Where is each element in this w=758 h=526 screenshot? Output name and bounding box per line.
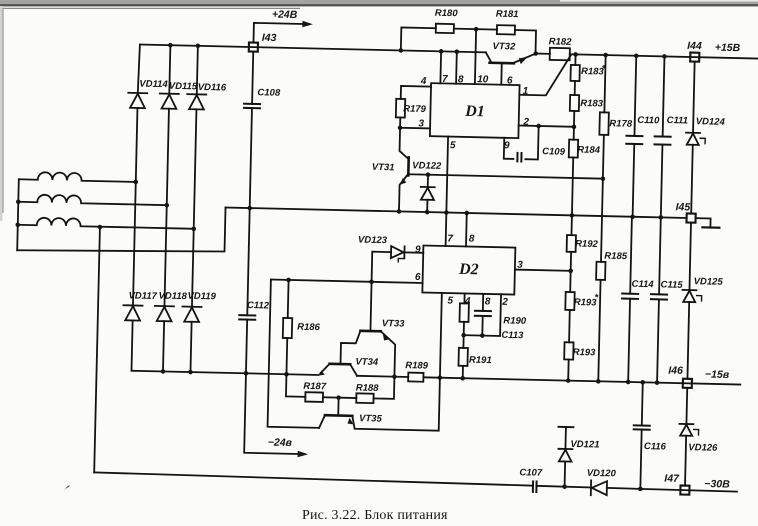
wire R183a to R183	[574, 81, 576, 95]
node -15 bus col3	[188, 370, 193, 375]
svg-text:VT31: VT31	[372, 162, 395, 174]
transistor VT33	[360, 329, 380, 332]
diode VD119	[182, 306, 201, 308]
wire D1 pin5 to middle rail	[446, 137, 448, 213]
wire middle rail to C112	[247, 208, 249, 315]
resistor R192	[567, 235, 576, 252]
wire D2 pin7 from middle rail	[445, 213, 448, 246]
wire R186 to -15 bus	[285, 338, 288, 374]
wire C113 bottom	[481, 316, 483, 336]
svg-text:I47: I47	[664, 473, 680, 485]
node rail A col3	[196, 43, 201, 48]
svg-text:R180: R180	[435, 8, 459, 20]
wire VD123 anode down to pin6 wire	[372, 252, 391, 283]
transistor VT31	[407, 157, 410, 175]
wire -15V bus left section (rectifier side, ends at VT34 emitter)	[131, 371, 318, 375]
wire VD125 to I46	[687, 302, 689, 379]
node middle rail pin5/pin7	[444, 210, 449, 215]
svg-text:R188: R188	[356, 383, 380, 395]
svg-text:C107: C107	[519, 467, 543, 479]
wire R188 right riser to -15 rail	[374, 376, 395, 399]
wire R187 left riser	[286, 374, 306, 397]
node -15 bus col2	[161, 369, 166, 374]
diode VD123 (zener)	[391, 246, 404, 258]
svg-text:VD124: VD124	[696, 116, 726, 128]
capacitor C110	[626, 135, 642, 137]
wire D2 pin2 down and across	[464, 293, 501, 336]
wire column 2	[169, 45, 170, 93]
wire C114 column	[630, 217, 632, 294]
transistor VT34	[330, 363, 351, 366]
svg-text:5: 5	[450, 140, 456, 151]
wire R191 to -15 rail	[462, 366, 464, 378]
wire C111 bottom	[661, 145, 663, 218]
ground symbol at I45	[695, 218, 710, 226]
node middle rail pin8 D2	[464, 211, 469, 216]
svg-text:10: 10	[477, 74, 489, 85]
wire D1 pin9 to C109 loop	[504, 138, 514, 159]
node L2 left junction	[16, 199, 21, 204]
svg-text:VD126: VD126	[688, 442, 718, 454]
op-amp U D2 box	[422, 246, 515, 295]
wire R178 top	[604, 55, 605, 112]
diode VD120 (in -30 rail)	[590, 480, 592, 495]
resistor R180	[436, 24, 454, 33]
svg-text:+24В: +24В	[272, 9, 298, 22]
wire C115 column	[659, 217, 661, 294]
wire R178 to VT31 base line and down to R185	[601, 135, 604, 262]
svg-text:2: 2	[522, 117, 529, 128]
wire R183 column top	[574, 54, 576, 65]
resistor R184	[569, 140, 578, 158]
svg-text:VD120: VD120	[587, 468, 617, 480]
wire D2 pin4 to R190	[463, 293, 465, 303]
svg-text:C113: C113	[501, 330, 524, 342]
capacitor C109	[516, 153, 518, 161]
node middle rail C110	[630, 214, 635, 219]
svg-text:VD122: VD122	[412, 160, 442, 172]
node rail A R183 column	[573, 52, 578, 57]
node -15 bus R186/R187	[284, 372, 289, 377]
node rail A R178 column	[603, 53, 608, 58]
node -15 bus C-column	[244, 371, 249, 376]
svg-text:D1: D1	[464, 103, 485, 120]
wire C108 to middle rail	[250, 108, 252, 208]
node VD122 top	[426, 172, 431, 177]
diode VD116	[187, 93, 206, 95]
wire D2 pin8b to C113	[482, 294, 484, 311]
svg-text:R186: R186	[297, 322, 321, 334]
svg-text:I43: I43	[262, 32, 277, 44]
resistor R188	[356, 393, 373, 403]
svg-text:1: 1	[523, 86, 529, 97]
wire I43 to C108	[252, 52, 253, 104]
node pin6/R186	[286, 278, 291, 283]
svg-text:VD118: VD118	[158, 291, 187, 303]
diode VD124 (zener)	[686, 132, 700, 134]
svg-text:C115: C115	[660, 279, 683, 291]
wire C114 bottom	[628, 299, 630, 382]
scan speck bottom-left	[64, 485, 70, 490]
svg-text:C111: C111	[667, 115, 689, 126]
wire C116 to -30 rail	[640, 430, 641, 489]
capacitor C111	[655, 135, 671, 137]
wire D1 pin2 row	[519, 126, 574, 127]
diode VD117	[123, 304, 142, 306]
node -15 rail VT33/R188	[392, 374, 397, 379]
svg-text:C116: C116	[644, 441, 667, 453]
resistor R193a (R193*)	[565, 292, 574, 310]
node rail A C110	[634, 53, 639, 58]
svg-text:6: 6	[507, 75, 513, 86]
svg-text:R184: R184	[577, 144, 601, 156]
wire cell left boundary	[268, 280, 323, 428]
winding L1	[19, 172, 136, 182]
wire D1 pin4	[401, 86, 431, 100]
transistor VT35	[325, 414, 352, 417]
wire D1 pin1 diagonal to R182 right	[519, 54, 570, 96]
svg-text:4: 4	[420, 76, 427, 87]
node I44	[690, 53, 699, 62]
svg-text:−30В: −30В	[704, 478, 730, 491]
wire C116 column top	[641, 382, 644, 425]
svg-text:Рис. 3.22. Блок питания: Рис. 3.22. Блок питания	[302, 508, 448, 523]
wire R186 column top	[287, 280, 290, 318]
wire R193a to R193	[568, 310, 571, 342]
node pin3/R192/R193	[568, 268, 573, 273]
wire C112 to -15 bus and -24V arrow	[246, 320, 247, 374]
wire R185 to -15 rail	[598, 280, 600, 381]
node middle rail R184	[570, 213, 575, 218]
node middle rail C111	[658, 215, 663, 220]
svg-text:3: 3	[517, 260, 523, 271]
wire -15V rail right section (VT34 collector to I46)	[357, 376, 408, 377]
svg-text:VD117: VD117	[128, 290, 157, 302]
wire VD123 cathode to D2 pin9	[404, 251, 423, 253]
resistor R185	[596, 262, 605, 280]
svg-text:VT35: VT35	[359, 413, 383, 425]
node L3 left junction	[15, 222, 20, 227]
wire +24V top rail (I43 net, left of VT32)	[140, 45, 486, 53]
resistor R178	[599, 112, 609, 135]
node R187/R188/VT35 base	[336, 395, 341, 400]
wire D1 pin8	[455, 52, 458, 84]
svg-text:C112: C112	[247, 300, 270, 312]
svg-text:7: 7	[442, 74, 448, 85]
node -15 rail R185 column	[596, 379, 601, 384]
scan left margin strip	[0, 6, 2, 221]
resistor R181	[497, 25, 515, 34]
wire C115 bottom	[657, 299, 659, 382]
svg-text:R189: R189	[405, 360, 429, 372]
resistor R193	[564, 342, 573, 359]
resistor R187	[305, 392, 323, 402]
-24V output arrow	[244, 373, 305, 454]
svg-text:VT34: VT34	[355, 356, 379, 368]
diode VD114	[128, 92, 147, 94]
svg-text:R181: R181	[496, 9, 519, 21]
svg-text:R182: R182	[549, 36, 573, 48]
node pin6/VD123/VT33 base	[369, 279, 374, 284]
wire R187 to R188	[323, 396, 356, 399]
wire VD126 to I47	[685, 436, 686, 486]
resistor R190	[459, 303, 468, 322]
wire R192 top	[570, 215, 572, 235]
diode VD125 (zener)	[682, 289, 696, 291]
winding L3	[18, 217, 194, 229]
node L2 tap	[164, 203, 169, 208]
resistor R189 (in -15 rail)	[408, 373, 423, 382]
svg-text:R179: R179	[403, 104, 427, 116]
svg-text:9: 9	[415, 244, 421, 255]
node -30 rail C116	[638, 487, 643, 492]
resistor R183a (R183*)	[570, 65, 579, 81]
wire I46 to VD126	[685, 388, 688, 424]
capacitor C107 (in -30 rail)	[532, 481, 534, 491]
svg-text:8: 8	[469, 234, 475, 245]
svg-text:R178: R178	[609, 118, 633, 130]
wire D2 pin5 to -15 rail	[440, 293, 442, 378]
svg-text:5: 5	[447, 296, 453, 307]
wire -30V bottom rail	[94, 472, 533, 485]
node pin2/C109	[536, 124, 541, 129]
svg-text:VD115: VD115	[169, 81, 198, 93]
diode VD118	[155, 305, 174, 307]
wire middle common rail (to I45)	[226, 208, 687, 218]
svg-text:I44: I44	[687, 40, 702, 52]
node -15 rail C116	[640, 380, 645, 385]
capacitor C115	[651, 293, 667, 295]
scan top border bar	[0, 0, 758, 5]
winding L2	[18, 194, 167, 205]
node rail A pin8	[454, 49, 459, 54]
node I47	[680, 485, 689, 494]
wire column 3	[197, 46, 198, 94]
svg-text:R187: R187	[303, 381, 327, 393]
wire VD124 to I45	[691, 145, 693, 214]
wire R190 bottom	[463, 322, 465, 335]
node -15 rail C115	[655, 380, 660, 385]
capacitor C112	[239, 314, 255, 316]
wire D1 pin7	[439, 51, 442, 83]
wire pin6 row	[271, 280, 423, 283]
node R190/R191	[461, 333, 466, 338]
diode VD121 with open terminal	[558, 426, 573, 428]
wire D2 pin3 to R192 column	[515, 270, 571, 271]
svg-text:VD116: VD116	[198, 82, 227, 94]
node rail A pin7	[439, 49, 444, 54]
wire I44 to VD124	[693, 62, 695, 133]
wire D2 pin8 from middle rail	[465, 213, 468, 246]
svg-text:3: 3	[418, 118, 424, 129]
capacitor C113	[475, 310, 491, 312]
svg-text:−24в: −24в	[268, 437, 293, 450]
wire R181 right riser to VT32 collector	[514, 30, 536, 53]
resistor R182	[550, 48, 570, 60]
svg-text:R185: R185	[604, 251, 628, 263]
svg-text:2: 2	[501, 297, 508, 308]
svg-text:−15в: −15в	[705, 368, 730, 381]
capacitor C116	[634, 424, 650, 426]
svg-text:VD121: VD121	[570, 439, 599, 451]
wire R184 to middle rail	[572, 157, 573, 215]
wire R192 to pin3 node	[569, 252, 572, 292]
transistor VT32	[490, 61, 514, 64]
resistor R186	[283, 318, 292, 338]
svg-text:VD123: VD123	[358, 235, 388, 247]
node pin2/R183 column	[572, 124, 577, 129]
svg-text:+15В: +15В	[715, 42, 741, 55]
node C113 bottom	[480, 333, 485, 338]
svg-text:R191: R191	[469, 355, 492, 367]
capacitor C114	[622, 293, 638, 295]
node outer-left tap on L3 line	[98, 225, 103, 230]
svg-text:C109: C109	[542, 146, 566, 158]
node R180/R181/pin10 junction	[474, 27, 479, 32]
svg-text:R192: R192	[575, 238, 599, 250]
svg-text:I46: I46	[668, 365, 683, 377]
diode VD115	[160, 92, 179, 94]
wire R180 left riser	[401, 27, 436, 51]
svg-text:D2: D2	[458, 261, 479, 278]
wire +15V rail (VT32 collector to I44 and beyond)	[536, 53, 550, 55]
svg-text:R190: R190	[503, 315, 527, 327]
svg-text:7: 7	[447, 234, 453, 245]
node I45	[686, 213, 695, 222]
svg-text:C110: C110	[637, 115, 660, 127]
wire transformer left vertical	[17, 179, 19, 250]
node R179/VT31 collector	[398, 125, 403, 130]
wire VT31 base line to R178 column	[408, 174, 603, 178]
capacitor C108	[244, 103, 260, 105]
node middle rail C-column	[247, 206, 252, 211]
wire R180 to R181	[454, 28, 497, 31]
node L3 tap	[191, 226, 196, 231]
svg-text:VD125: VD125	[694, 276, 724, 288]
wire C111 top	[663, 56, 665, 136]
op-amp U D1 box	[430, 83, 520, 138]
node -15 rail R193	[566, 378, 571, 383]
wire C109 to pin2	[525, 126, 538, 160]
resistor R179	[396, 99, 405, 118]
wire pin10 drop	[475, 29, 476, 84]
node VT32 collector junction	[533, 51, 538, 56]
node R178 bottom	[601, 176, 606, 181]
node -15 rail pin5/VT35	[438, 375, 443, 380]
wire outer-left vertical (L3 line down to -30V rail)	[94, 227, 100, 472]
diode VD126 (zener)	[679, 423, 693, 425]
wire R191 top	[462, 335, 464, 348]
node -30 rail VD121	[562, 484, 567, 489]
svg-text:R183: R183	[580, 98, 604, 110]
svg-text:6: 6	[415, 272, 421, 283]
node middle rail VT31 emitter	[397, 209, 402, 214]
svg-text:VT32: VT32	[492, 41, 516, 53]
resistor R183	[570, 95, 579, 111]
node rail A col2	[168, 43, 173, 48]
node rail A R180 column	[398, 48, 403, 53]
wire I45 to VD125	[689, 223, 691, 290]
wire C110 bottom	[633, 144, 635, 217]
svg-text:VD114: VD114	[139, 79, 168, 91]
node I43	[249, 42, 258, 51]
wire C110 top	[634, 56, 636, 136]
+24V output arrow	[253, 23, 308, 44]
wire R179 bottom to pin3	[400, 117, 430, 128]
svg-text:8: 8	[485, 296, 491, 307]
svg-text:4: 4	[464, 296, 471, 307]
node -15 rail C114	[626, 380, 631, 385]
resistor R191	[458, 348, 467, 366]
wire VT32 base to D1 pin6	[500, 63, 502, 85]
svg-text:C108: C108	[257, 87, 281, 99]
svg-text:9: 9	[504, 140, 510, 151]
svg-text:VD119: VD119	[187, 291, 216, 303]
node I46	[683, 379, 692, 388]
wire R193 to -15 rail	[567, 360, 569, 381]
svg-text:R193: R193	[573, 347, 597, 359]
svg-text:I45: I45	[675, 201, 690, 213]
wire transformer return to middle rail	[17, 203, 225, 255]
node middle rail VD122	[425, 210, 430, 215]
svg-text:VT33: VT33	[382, 318, 406, 330]
svg-text:C114: C114	[631, 279, 654, 291]
node -15 rail R191	[460, 376, 465, 381]
wire R183 to pin2 node	[573, 111, 576, 140]
diode VD122	[427, 175, 429, 187]
node L1 tap	[133, 180, 138, 185]
svg-text:8: 8	[458, 74, 464, 85]
node rail A C111	[662, 54, 667, 59]
wire column 1	[138, 44, 140, 93]
